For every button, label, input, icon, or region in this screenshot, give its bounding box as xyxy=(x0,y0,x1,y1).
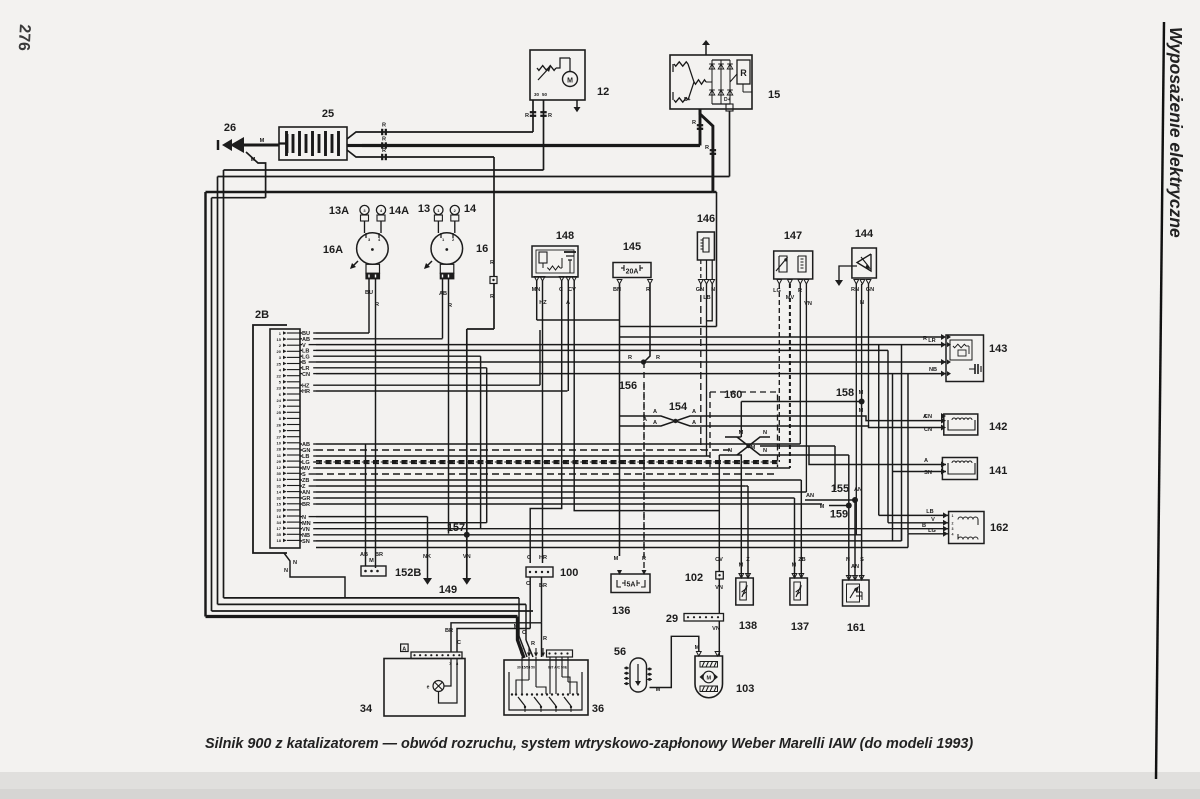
dashed box 160 xyxy=(710,392,778,467)
sensor 147 pins xyxy=(777,280,782,285)
inline connector 102 xyxy=(716,572,724,580)
svg-text:136: 136 xyxy=(612,605,630,617)
svg-text:Wyposażenie elektryczne: Wyposażenie elektryczne xyxy=(1166,27,1186,238)
svg-text:56: 56 xyxy=(614,646,626,658)
riser SN to 162 B xyxy=(901,529,903,541)
wire row LB lower xyxy=(316,455,710,457)
connector 100 xyxy=(526,567,553,577)
wire 100 C down xyxy=(529,577,531,611)
svg-text:28: 28 xyxy=(277,447,282,452)
svg-text:102: 102 xyxy=(685,572,703,584)
wire trunk tee to 143 R xyxy=(620,336,920,338)
connector 25 xyxy=(279,127,347,160)
crossover 154 xyxy=(650,416,700,426)
svg-text:M: M xyxy=(656,687,661,693)
svg-text:147: 147 xyxy=(784,230,802,242)
svg-text:26: 26 xyxy=(277,422,282,427)
svg-text:4: 4 xyxy=(952,532,954,536)
component 144 triangle xyxy=(857,254,871,271)
wire ZB vertical to 137 xyxy=(800,480,802,578)
dashed boundary 156 xyxy=(643,384,645,556)
svg-text:2: 2 xyxy=(952,521,954,525)
wire 160 mid right leg xyxy=(760,445,835,447)
svg-text:C: C xyxy=(526,581,530,587)
svg-text:M: M xyxy=(614,556,619,562)
fuel pump 103 top hatch xyxy=(700,662,718,668)
wire 25 third line to R trunk xyxy=(362,156,494,158)
svg-text:138: 138 xyxy=(739,620,757,632)
frame wire B xyxy=(211,198,213,611)
wire 154 right to 142 A xyxy=(700,416,941,421)
alternator 15 D+ square connector xyxy=(726,104,733,111)
svg-text:M: M xyxy=(567,78,573,85)
fuse 145 pins xyxy=(617,280,622,285)
wire 147 MV dashed down xyxy=(789,284,791,468)
alternator 15 diode bridge xyxy=(711,60,713,104)
svg-text:BR: BR xyxy=(539,583,547,589)
svg-text:LB: LB xyxy=(926,509,933,515)
ignition coil 16 xyxy=(431,233,463,265)
svg-text:30 15/54 50: 30 15/54 50 xyxy=(517,666,535,670)
fuel pump 103 motor xyxy=(703,671,715,683)
svg-text:276: 276 xyxy=(15,24,33,52)
svg-text:35: 35 xyxy=(277,532,282,537)
wire GR vertical to 137 M xyxy=(794,498,796,578)
sensor 147 box xyxy=(774,251,813,279)
svg-text:10: 10 xyxy=(277,441,282,446)
fuse 136 pin arrows xyxy=(617,570,622,575)
wire 155 vertical to 161 AN xyxy=(854,500,856,580)
svg-text:152B: 152B xyxy=(395,567,421,579)
wire 26 to 25 upper M xyxy=(244,144,279,147)
svg-text:VN: VN xyxy=(804,301,812,307)
wire 146 N bracket xyxy=(707,284,713,321)
svg-text:33: 33 xyxy=(277,508,282,513)
svg-text:AN: AN xyxy=(854,487,862,493)
svg-text:143: 143 xyxy=(989,343,1007,355)
svg-text:100: 100 xyxy=(560,567,578,579)
component 144 box xyxy=(852,248,877,278)
node 157 xyxy=(464,532,470,538)
svg-text:D+: D+ xyxy=(724,97,731,103)
svg-text:e: e xyxy=(427,685,430,691)
svg-text:15: 15 xyxy=(277,337,282,342)
component 26 arrow symbol xyxy=(230,137,244,153)
svg-text:SN: SN xyxy=(924,470,932,476)
wire 16 AB xyxy=(442,279,444,339)
svg-text:N: N xyxy=(728,448,732,454)
svg-text:CN: CN xyxy=(924,427,932,433)
wire 147 R down xyxy=(799,284,801,444)
wire row BU to coil 16A xyxy=(316,332,369,334)
wire row VN short up xyxy=(316,528,902,530)
svg-text:15: 15 xyxy=(768,89,780,101)
svg-text:161: 161 xyxy=(847,622,865,634)
svg-text:25: 25 xyxy=(277,410,282,415)
wire VN vertical through node 157 xyxy=(466,329,468,578)
svg-text:GN: GN xyxy=(866,287,874,293)
svg-text:N: N xyxy=(846,557,850,563)
svg-text:BR: BR xyxy=(302,502,310,508)
wire SN to 141 xyxy=(893,471,947,473)
wire 154 left feeds xyxy=(620,415,651,417)
svg-text:R: R xyxy=(740,68,747,78)
svg-text:BR: BR xyxy=(375,552,383,558)
wire row AB to coil 16 xyxy=(316,338,443,340)
svg-text:R: R xyxy=(382,123,386,129)
svg-text:36: 36 xyxy=(592,703,604,715)
svg-text:N: N xyxy=(284,568,288,574)
wire 144 GN down xyxy=(868,284,870,426)
wire row GR to 137 M xyxy=(316,497,795,499)
ignition coil 16A xyxy=(357,233,389,265)
crossover 160 xyxy=(737,437,770,455)
svg-text:R: R xyxy=(705,145,709,151)
svg-text:34: 34 xyxy=(360,703,373,715)
svg-text:A: A xyxy=(402,646,406,652)
svg-text:RN: RN xyxy=(851,287,859,293)
wire 144 RN down xyxy=(855,284,857,535)
wire 160 left leg down xyxy=(725,436,737,438)
fuel pump 103 xyxy=(695,656,723,698)
fuel pump 103 lower hatch xyxy=(700,686,718,692)
svg-text:BR: BR xyxy=(445,628,453,634)
svg-text:A: A xyxy=(923,414,927,420)
wire 160 upper right to 158 node xyxy=(741,401,861,403)
svg-text:157: 157 xyxy=(447,522,465,534)
svg-text:CV: CV xyxy=(715,557,723,563)
svg-text:AN: AN xyxy=(851,564,859,570)
wire R trunk from 25 down xyxy=(493,157,495,277)
riser lower N to 162 xyxy=(907,534,909,548)
svg-text:R: R xyxy=(490,260,494,266)
starter motor 12 box xyxy=(530,50,585,100)
svg-text:26: 26 xyxy=(224,122,236,134)
wire 148 MN down to 145 link xyxy=(536,281,538,320)
node 159 xyxy=(846,503,852,509)
svg-text:A: A xyxy=(692,420,696,426)
svg-text:AB: AB xyxy=(439,291,447,297)
svg-text:32: 32 xyxy=(277,496,282,501)
svg-text:R: R xyxy=(628,355,632,361)
frame wire A outer thick xyxy=(204,192,206,617)
svg-text:A: A xyxy=(653,420,657,426)
svg-text:146: 146 xyxy=(697,213,715,225)
svg-text:14: 14 xyxy=(464,203,477,215)
ignition switch 36 left connector pins xyxy=(520,653,524,658)
fuse 136 box 5A xyxy=(611,574,650,593)
wire fan from 25 right side xyxy=(347,132,362,139)
wire 146 GN down xyxy=(700,284,702,450)
svg-text:24: 24 xyxy=(277,398,282,403)
svg-text:M: M xyxy=(739,563,744,569)
component 144 ground branch xyxy=(839,266,857,280)
relay 148 box xyxy=(532,246,578,277)
sensor 147 resistor element xyxy=(798,256,806,272)
sensor 147 thermistor xyxy=(779,256,787,272)
connector 162 box xyxy=(949,512,984,544)
sensor 146 box xyxy=(697,232,714,260)
svg-text:N: N xyxy=(763,448,767,454)
svg-text:13: 13 xyxy=(277,477,282,482)
ECU connector 2B outline xyxy=(253,325,287,553)
connector 152B xyxy=(361,566,386,576)
wire 100 BR down xyxy=(541,577,543,623)
frame wire D xyxy=(223,170,225,598)
wire vertical to 162 V xyxy=(887,350,889,522)
ignition switch 36 right connector strip xyxy=(547,650,573,657)
svg-text:AN: AN xyxy=(806,493,814,499)
wire 148 CV jog to 102 xyxy=(574,281,719,572)
svg-text:R: R xyxy=(543,636,547,642)
svg-text:16: 16 xyxy=(476,243,488,255)
wire C to 34 xyxy=(457,629,530,653)
svg-text:142: 142 xyxy=(989,421,1007,433)
svg-text:159: 159 xyxy=(830,509,848,521)
alternator 15 box xyxy=(670,55,752,109)
device 34 connector A label xyxy=(401,644,409,652)
frame wire A drop to ignition switch 30 xyxy=(518,617,525,659)
sensor 142 box xyxy=(944,414,978,435)
svg-text:AB: AB xyxy=(360,552,368,558)
starter 12 ground arrow xyxy=(576,100,578,107)
frame wire C xyxy=(217,177,219,605)
wire row MN short up xyxy=(316,522,487,524)
svg-text:12: 12 xyxy=(597,86,609,98)
wire 56 to 103 xyxy=(650,636,699,687)
wire row LB to 162 V xyxy=(316,349,888,351)
svg-text:A: A xyxy=(692,409,696,415)
svg-text:A: A xyxy=(653,409,657,415)
wire R trunk jog to VN vertical xyxy=(467,328,494,330)
wire vertical 143 LR branch to row SN xyxy=(901,345,903,541)
svg-text:154: 154 xyxy=(669,401,688,413)
2B bottom N pigtail xyxy=(284,553,345,598)
svg-text:LR: LR xyxy=(928,338,935,344)
svg-text:GN: GN xyxy=(696,287,704,293)
svg-text:158: 158 xyxy=(836,387,854,399)
wire 102 to 29 xyxy=(718,579,720,614)
ignition switch 36 contact row xyxy=(511,693,513,695)
svg-text:M: M xyxy=(251,157,256,163)
svg-text:148: 148 xyxy=(556,230,574,242)
relay 148 pins xyxy=(534,277,539,282)
connector strip 29 xyxy=(684,614,724,622)
svg-text:155: 155 xyxy=(831,483,849,495)
svg-text:M: M xyxy=(260,138,265,144)
wire row MV xyxy=(316,467,790,469)
fuel pump 103 pins xyxy=(696,652,701,657)
svg-text:34: 34 xyxy=(277,520,282,525)
wire row NB long node 157 xyxy=(316,534,862,536)
inertia switch 56 xyxy=(630,658,647,692)
device 34 box xyxy=(384,659,465,717)
svg-text:137: 137 xyxy=(791,621,809,633)
wire row AB lower to 147 xyxy=(316,443,800,445)
wire 148 A down xyxy=(567,281,569,391)
svg-text:S: S xyxy=(860,557,864,563)
wires down to ignition switch 36 xyxy=(525,604,527,640)
wire 16A R down to 152B xyxy=(375,279,377,568)
device 34 internal wiring xyxy=(450,659,452,682)
wire 25 to alternator B+ (thick) with R break xyxy=(362,144,700,147)
svg-text:20: 20 xyxy=(277,349,282,354)
ignition switch 36 box xyxy=(504,660,588,715)
relay 143 pin arrows xyxy=(947,335,951,340)
svg-text:25: 25 xyxy=(277,361,282,366)
wire vertical to 162 LB xyxy=(878,345,880,516)
wire row BR long xyxy=(316,503,822,505)
svg-text:M: M xyxy=(369,558,374,564)
wire row AN to 147 VN xyxy=(316,491,806,493)
wire A to 141 xyxy=(809,446,946,465)
svg-text:R: R xyxy=(548,113,552,119)
sensor 146 pins xyxy=(698,280,703,285)
wire row GN dashed xyxy=(316,449,733,451)
svg-text:160: 160 xyxy=(724,389,742,401)
sensor 141 box xyxy=(942,458,977,480)
svg-text:25: 25 xyxy=(322,108,334,120)
wire 160 lower right leg to N vertical xyxy=(770,454,849,456)
wire 147 LG dashed down xyxy=(778,284,780,462)
svg-text:14: 14 xyxy=(277,489,282,494)
spark plug 4 xyxy=(376,205,385,214)
wire 16A BU xyxy=(368,279,370,333)
svg-text:M: M xyxy=(820,504,825,510)
spark plug 1 xyxy=(434,205,443,214)
wire 26 lower M branch xyxy=(246,152,266,198)
svg-text:141: 141 xyxy=(989,465,1007,477)
svg-text:Silnik 900 z katalizatorem — o: Silnik 900 z katalizatorem — obwód rozru… xyxy=(205,736,973,752)
svg-text:CV: CV xyxy=(568,287,576,293)
wire row V/LR long to 143 xyxy=(316,344,946,346)
svg-text:16A: 16A xyxy=(323,244,343,256)
junction verticals left of center xyxy=(480,356,482,529)
svg-text:156: 156 xyxy=(619,380,637,392)
alternator 15 stator windings xyxy=(674,62,688,66)
wire NK arrow 149 xyxy=(427,517,429,578)
wire 148 HZ down to 100 HR xyxy=(542,281,544,563)
svg-text:CN: CN xyxy=(302,372,310,378)
svg-text:18: 18 xyxy=(277,538,282,543)
R trunk inline connector square xyxy=(490,277,497,284)
svg-text:12: 12 xyxy=(277,465,282,470)
wire vertical CN to 162 LG xyxy=(907,374,909,534)
wire 12 pin50 down to frame line xyxy=(543,100,545,170)
svg-text:R: R xyxy=(525,113,529,119)
svg-text:HR: HR xyxy=(302,389,310,395)
svg-text:27: 27 xyxy=(277,435,282,440)
alternator 15 ground above xyxy=(705,45,707,55)
ignition switch 36 switch contacts xyxy=(518,697,525,706)
svg-text:5A: 5A xyxy=(627,582,636,589)
alternator 15 regulator R box xyxy=(737,60,750,84)
wire 145 BN trunk down to fuse 136 xyxy=(619,284,621,556)
wire dashed from node R to 136 xyxy=(643,362,645,570)
wire B+ feed to trunk xyxy=(716,192,718,327)
svg-text:R: R xyxy=(382,148,386,154)
svg-text:M: M xyxy=(514,624,519,630)
starter 12 internal resistor xyxy=(537,66,556,71)
svg-text:149: 149 xyxy=(439,584,457,596)
wire row N to NK arrow xyxy=(316,516,428,518)
fuse 145 box 20A xyxy=(613,263,651,278)
wire 146 LB down xyxy=(706,284,708,456)
svg-text:1: 1 xyxy=(952,514,954,518)
svg-text:C: C xyxy=(527,555,531,561)
wire row LR short xyxy=(316,367,487,369)
wire row SN long xyxy=(316,540,902,542)
wire 147 VN down xyxy=(805,284,807,492)
svg-text:V: V xyxy=(931,517,935,523)
svg-text:BU: BU xyxy=(365,290,373,296)
svg-text:144: 144 xyxy=(855,228,874,240)
wire row LG heavy dashed xyxy=(316,460,778,462)
component 144 pins xyxy=(854,280,859,285)
wire vertical NB branch xyxy=(892,374,894,541)
wire row B long to 143 with node R xyxy=(316,361,946,363)
wire Z vertical to 138 xyxy=(747,486,749,578)
wire row S dashed xyxy=(316,473,778,475)
wire 100 R to 36 xyxy=(541,623,543,657)
spark plug 3 xyxy=(360,205,369,214)
svg-text:R: R xyxy=(656,355,660,361)
wire 145 R down to node R xyxy=(644,284,650,362)
wire row LG short xyxy=(316,355,481,357)
wire 158 vertical to 161 S xyxy=(861,402,863,581)
svg-text:29: 29 xyxy=(666,613,678,625)
svg-text:R: R xyxy=(375,302,379,308)
injector 137 box xyxy=(790,578,808,605)
wire row CN/NB long to 143 xyxy=(316,373,946,375)
wire CN to 142 xyxy=(941,425,946,431)
svg-text:C: C xyxy=(522,630,526,636)
relay 148 coil element xyxy=(539,252,547,263)
wire row ZB to injector 137 xyxy=(316,479,801,481)
svg-text:N: N xyxy=(293,560,297,566)
wire BR to 34 xyxy=(451,623,542,652)
wire B+ down thick with R break xyxy=(700,109,713,192)
wire 144 N down xyxy=(861,284,863,402)
starter 12 motor circle M xyxy=(563,72,578,87)
wire AB into 152B xyxy=(365,444,367,566)
connector 162 coils xyxy=(958,517,978,520)
svg-text:20A: 20A xyxy=(626,269,639,276)
starter 12 solenoid switch arrow xyxy=(538,68,549,80)
svg-text:13A: 13A xyxy=(329,205,349,217)
wire 29 to 103 xyxy=(718,621,720,656)
svg-text:B+: B+ xyxy=(684,97,691,103)
wire 25 to 12 pin30 with R break xyxy=(362,131,533,133)
svg-text:23: 23 xyxy=(277,386,282,391)
svg-text:VN: VN xyxy=(463,554,471,560)
wire 16 R down xyxy=(448,279,450,534)
svg-text:HZ: HZ xyxy=(539,300,547,306)
svg-text:C: C xyxy=(457,640,461,646)
node 158 xyxy=(859,399,865,405)
svg-text:R: R xyxy=(692,120,696,126)
wire row HZ xyxy=(316,384,540,386)
wire row HR xyxy=(316,390,568,392)
svg-text:R: R xyxy=(531,641,535,647)
pressure regulator 161 box xyxy=(843,580,870,606)
wire row Z to injector 138 xyxy=(316,485,746,487)
svg-text:14A: 14A xyxy=(389,205,409,217)
relay 148 contact plates xyxy=(564,251,576,253)
svg-text:NB: NB xyxy=(929,367,937,373)
svg-text:50: 50 xyxy=(542,92,548,97)
wire 160 lower left leg to 138 xyxy=(737,455,741,578)
